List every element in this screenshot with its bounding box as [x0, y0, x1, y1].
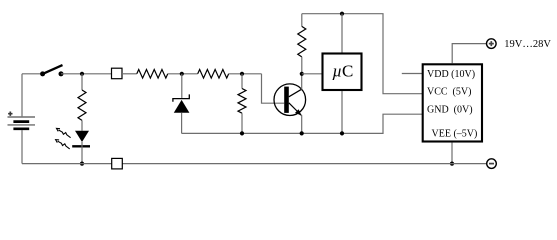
terminal plus: [487, 39, 497, 49]
battery B1: [8, 74, 36, 164]
resistor R5: [298, 14, 306, 74]
node U2 bottom junction: [450, 162, 454, 166]
node top rail junction: [340, 12, 344, 16]
switch S1: [40, 65, 63, 76]
svg-text:GND (0V): GND (0V): [427, 104, 473, 115]
node collector junction: [300, 72, 304, 76]
wire top rail: [302, 14, 423, 94]
resistor R1: [137, 70, 168, 79]
power module U2: [423, 64, 482, 141]
resistor R4: [238, 74, 246, 134]
wire R2 to node C: [229, 73, 262, 75]
connector X2 bottom: [112, 158, 123, 169]
wire U2 top pin: [452, 44, 486, 64]
wire connector to R1: [122, 73, 137, 75]
node A junction: [80, 72, 84, 76]
LED light arrows: [56, 128, 71, 149]
svg-text:VEE (–5V): VEE (–5V): [432, 128, 478, 139]
wire base path: [262, 74, 285, 103]
svg-text:VCC (5V): VCC (5V): [427, 87, 471, 98]
wire R1 to node B: [168, 73, 198, 75]
LED D1: [72, 131, 90, 164]
svg-text:19V…28V: 19V…28V: [504, 39, 551, 50]
zener diode D2: [173, 74, 190, 134]
node C junction: [240, 72, 244, 76]
node B junction: [180, 72, 184, 76]
transistor Q1: [274, 74, 306, 134]
wire top rail left: [22, 73, 43, 75]
resistor R2: [198, 70, 229, 79]
svg-text:VDD (10V): VDD (10V): [427, 69, 475, 80]
microcontroller U1: [323, 54, 362, 91]
wire U1 top pin: [341, 14, 343, 53]
wire U1 bottom pin: [341, 91, 343, 133]
node bottom-left junction: [80, 162, 84, 166]
wire bottom rail: [22, 163, 487, 165]
resistor R3: [78, 74, 86, 131]
wire U2 bottom pin: [451, 143, 453, 164]
terminal minus: [487, 159, 497, 169]
node R4 bottom junction: [240, 131, 244, 135]
wire bottom mid rail: [182, 114, 423, 133]
node U1 bottom junction: [340, 131, 344, 135]
wire VDD stub: [402, 73, 423, 75]
svg-text:µC: µC: [332, 61, 353, 80]
wire collector node to U1: [302, 73, 322, 75]
connector X1 top: [112, 68, 123, 79]
wire switch to node A: [61, 73, 112, 75]
node emitter junction: [300, 131, 304, 135]
